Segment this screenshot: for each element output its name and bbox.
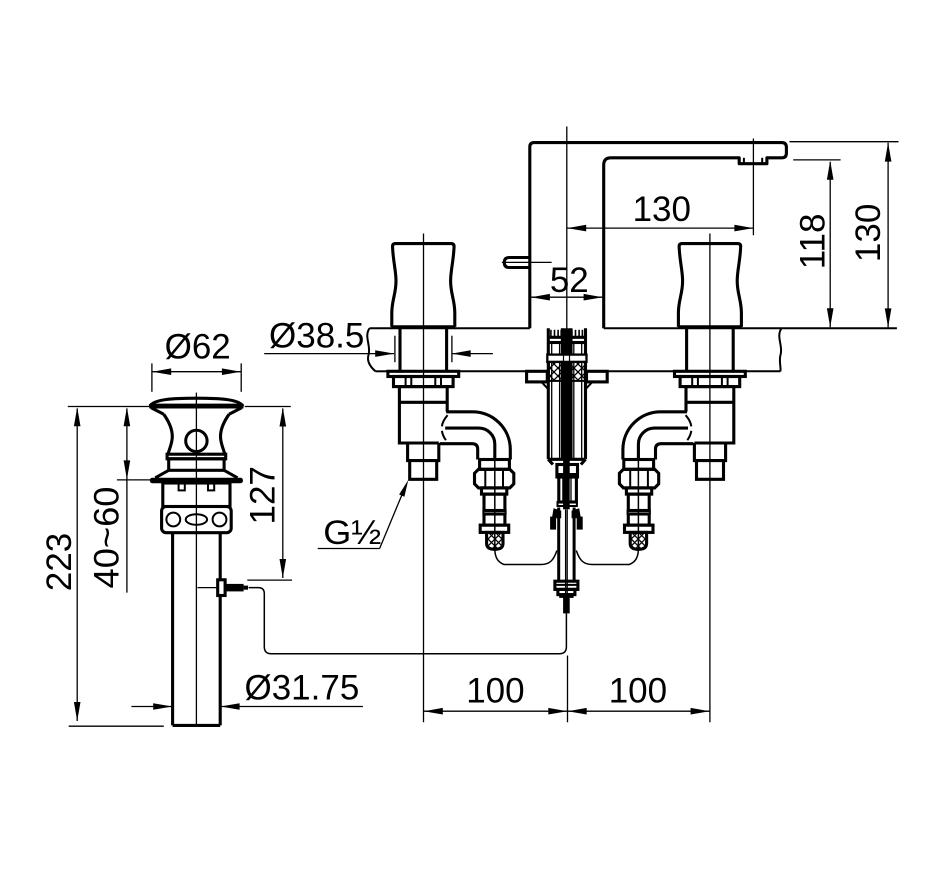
drain flange (dark)	[150, 478, 243, 483]
center valve tubes	[547, 328, 550, 459]
braided hose end	[630, 532, 646, 549]
coupling stack	[626, 488, 651, 494]
drain tail pipe	[171, 533, 174, 726]
dim 130 horizontal (spout reach)	[567, 227, 754, 229]
spout centerline	[566, 127, 568, 331]
dim 118 vertical	[793, 159, 840, 161]
handle	[679, 244, 741, 247]
elbow root fillet arc	[442, 415, 448, 426]
svg-text:Ø62: Ø62	[165, 327, 231, 366]
valve body step	[408, 443, 439, 479]
left handle assembly	[388, 244, 557, 565]
slotted ring	[163, 483, 230, 507]
aerator centerline / extension	[752, 139, 754, 236]
dim 223	[68, 406, 150, 408]
shank flange washer	[674, 371, 745, 376]
valve body	[399, 387, 447, 443]
coupling centerline	[637, 445, 639, 549]
center valve collar band	[547, 355, 586, 362]
svg-text:100: 100	[609, 672, 667, 711]
shank locknut	[394, 377, 454, 387]
svg-text:Ø38.5: Ø38.5	[269, 317, 364, 356]
center valve thread ticks	[550, 330, 552, 338]
handle shank through deck	[398, 328, 401, 371]
handle	[393, 244, 455, 247]
drain skirt cone	[155, 470, 168, 478]
svg-text:130: 130	[849, 204, 888, 262]
countertop deck bottom line	[376, 370, 388, 372]
dim Ø31.75	[131, 706, 172, 708]
handle shank through deck	[732, 328, 735, 371]
svg-text:118: 118	[793, 213, 832, 269]
svg-text:40~60: 40~60	[87, 487, 126, 589]
spout aerator ticks	[743, 158, 745, 164]
center valve: pop-up rod (dark)	[563, 328, 570, 509]
dim 52	[531, 296, 603, 298]
deck break line right	[779, 328, 781, 371]
drain plug cap	[150, 398, 242, 405]
overflow hole	[186, 430, 207, 451]
svg-text:223: 223	[40, 533, 79, 591]
coupling stack	[482, 488, 507, 494]
o-ring housing	[162, 507, 232, 533]
svg-text:100: 100	[466, 672, 524, 711]
hose coupling hex nut	[475, 469, 514, 488]
drain collar bands	[167, 454, 226, 459]
faucet spout body	[530, 143, 787, 329]
svg-text:Ø31.75: Ø31.75	[244, 668, 359, 707]
svg-text:127: 127	[244, 466, 283, 524]
svg-text:52: 52	[550, 261, 589, 300]
svg-text:G½: G½	[323, 514, 381, 552]
leader line from pop-up rod to drain lift screw	[249, 588, 567, 654]
center valve groove lines	[548, 336, 563, 339]
lift rod knob	[504, 258, 530, 268]
supply elbow outer	[446, 412, 510, 460]
rod guide collar	[555, 581, 578, 589]
barb fitting (dark)	[552, 508, 561, 518]
elbow shelf edge	[655, 444, 693, 460]
flexible hose to center	[576, 550, 638, 565]
drain centerline	[195, 393, 197, 726]
lift rod screw	[218, 580, 225, 596]
dim 130 vertical	[790, 141, 899, 143]
right handle assembly (mirrored)	[576, 244, 745, 565]
cap bevel	[151, 408, 164, 415]
drain neck	[164, 414, 173, 454]
shank locknut	[680, 377, 740, 387]
hose coupling collar	[480, 460, 510, 470]
wing gussets	[541, 382, 548, 389]
left handle centerline	[423, 234, 425, 723]
hose coupling collar	[624, 460, 654, 470]
center valve bottom	[548, 458, 585, 461]
center valve knurl bands	[549, 362, 563, 381]
svg-text:130: 130	[633, 190, 691, 229]
hose coupling hex nut	[619, 469, 658, 488]
supply elbow outer	[623, 412, 687, 460]
valve body step	[694, 443, 725, 479]
braided hose end	[487, 532, 503, 549]
valve body	[686, 387, 734, 443]
deck break line left	[367, 328, 375, 371]
pop-up rod lower stub (dark)	[563, 597, 570, 614]
coupling centerline	[494, 445, 496, 549]
right handle centerline	[709, 234, 711, 723]
supply elbow inner	[445, 428, 495, 459]
shank flange washer	[388, 371, 459, 376]
dim 100 / 100	[567, 656, 569, 723]
mounting bracket wings	[527, 371, 548, 382]
elbow root fillet arc	[686, 415, 692, 426]
dim 40~60	[126, 409, 128, 593]
dim 127	[245, 406, 291, 408]
rod guide tube	[557, 508, 560, 582]
elbow shelf edge	[440, 444, 478, 460]
flexible hose to center	[495, 550, 557, 565]
countertop deck top line	[370, 327, 393, 329]
supply elbow inner	[638, 428, 688, 459]
